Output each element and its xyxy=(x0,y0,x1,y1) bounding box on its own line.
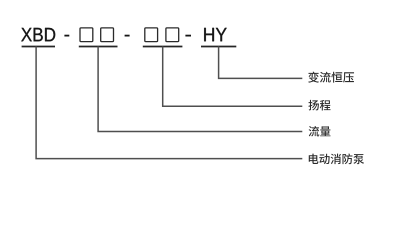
hyphen separator 2 xyxy=(125,35,130,37)
label text 流量 (flow rate) xyxy=(309,126,331,137)
leader wire from HY to label AC constant pressure xyxy=(219,46,303,78)
model code text XBD xyxy=(21,28,55,41)
model suffix text HY xyxy=(204,28,226,41)
placeholder square 2 xyxy=(101,28,114,42)
leader wire from XBD to label electric fire pump xyxy=(36,46,302,158)
underline under HY xyxy=(201,46,236,48)
leader wire from squares 3-4 to label head xyxy=(163,46,303,106)
label text 变流恒压 (variable-flow constant pressure) xyxy=(308,72,354,83)
placeholder square 3 xyxy=(145,28,158,42)
underline under XBD xyxy=(22,46,55,48)
label text 扬程 (head) xyxy=(308,100,330,111)
underline under squares 1-2 xyxy=(79,46,118,48)
underline under squares 3-4 xyxy=(143,46,183,48)
placeholder square 1 xyxy=(80,28,93,42)
placeholder square 4 xyxy=(166,28,179,42)
leader wire from squares 1-2 to label flow xyxy=(98,46,302,131)
hyphen separator 1 xyxy=(64,35,69,37)
hyphen separator 3 xyxy=(185,35,191,37)
label text 电动消防泵 (electric fire pump) xyxy=(309,154,364,165)
